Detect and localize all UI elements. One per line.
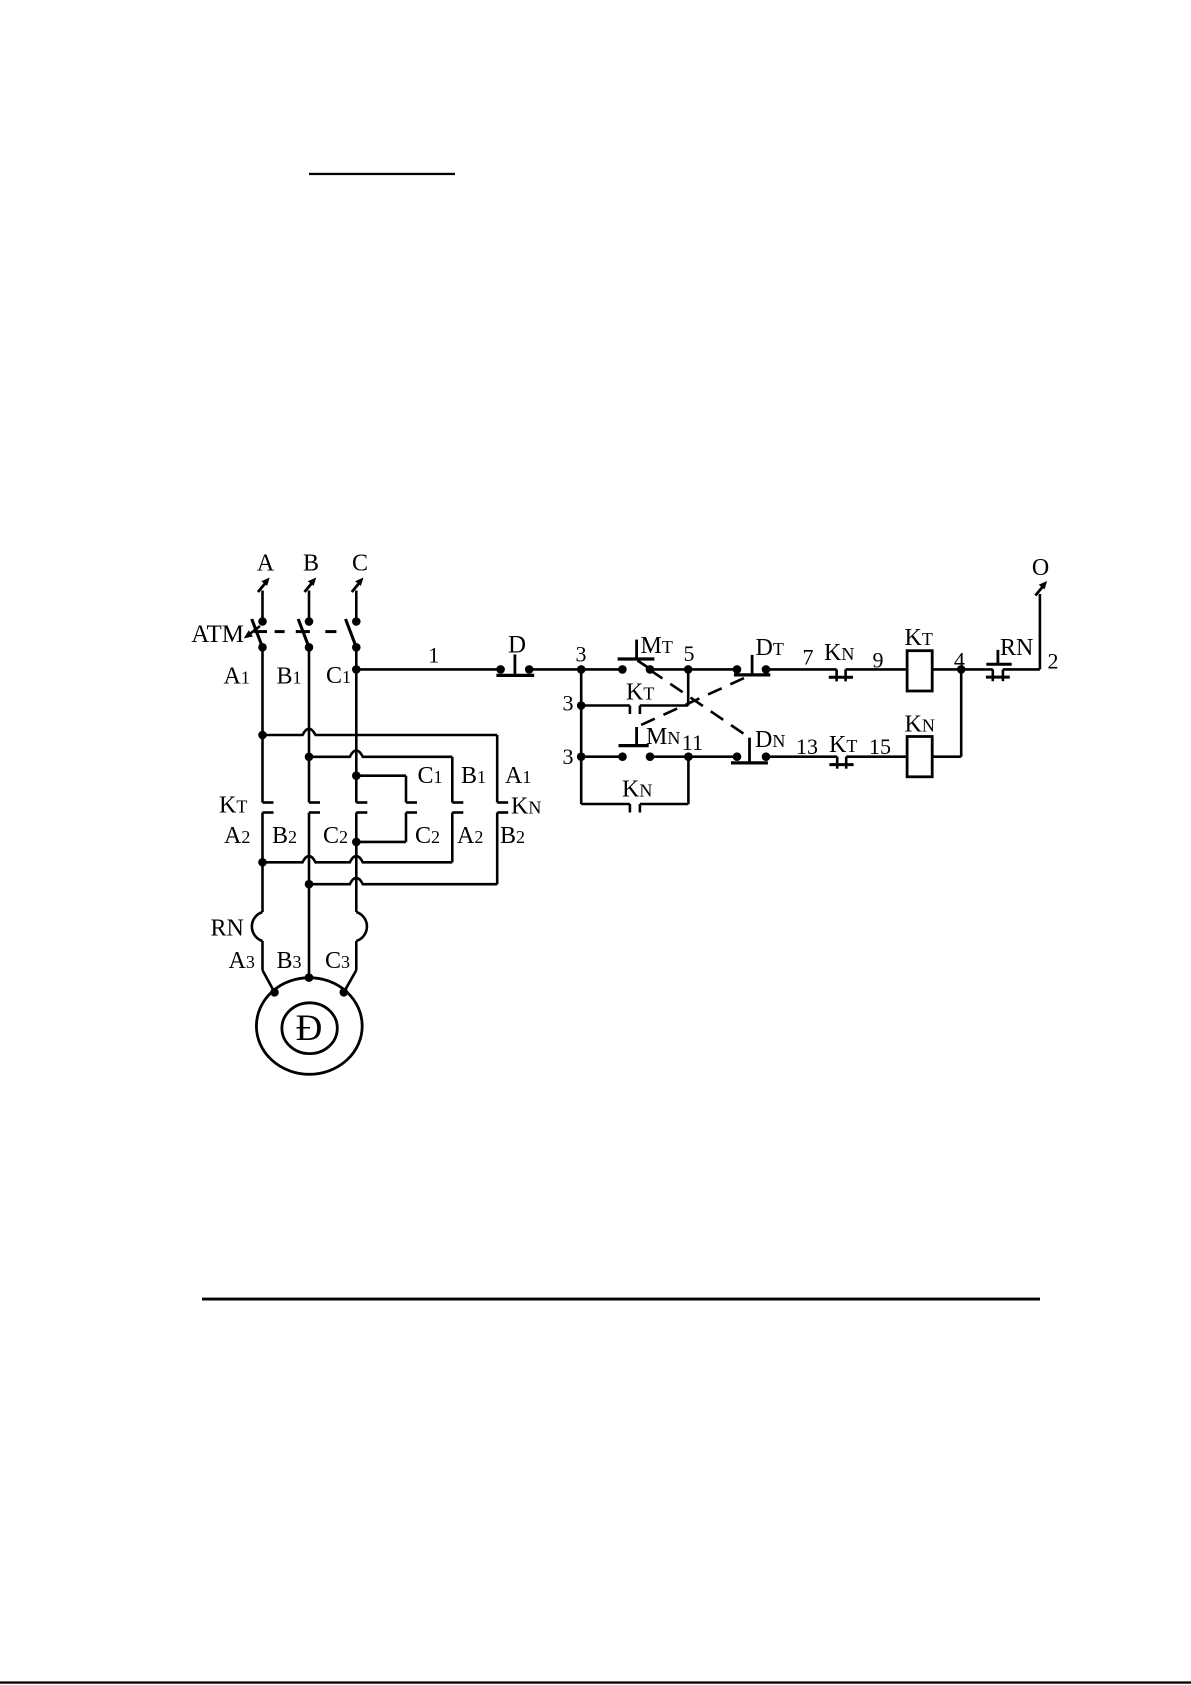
svg-text:O: O bbox=[1032, 555, 1049, 581]
svg-text:4: 4 bbox=[954, 648, 965, 673]
svg-text:KN: KN bbox=[511, 794, 541, 820]
svg-text:C: C bbox=[352, 551, 368, 577]
svg-text:15: 15 bbox=[869, 734, 891, 759]
svg-text:2: 2 bbox=[1048, 649, 1059, 674]
svg-text:9: 9 bbox=[873, 648, 884, 673]
svg-text:A3: A3 bbox=[229, 948, 255, 974]
svg-text:B3: B3 bbox=[277, 948, 302, 974]
svg-text:A2: A2 bbox=[224, 823, 250, 849]
svg-text:C3: C3 bbox=[325, 948, 350, 974]
svg-text:C1: C1 bbox=[326, 663, 351, 689]
svg-text:DN: DN bbox=[755, 727, 785, 753]
svg-text:A: A bbox=[257, 551, 275, 577]
svg-text:D: D bbox=[508, 632, 526, 659]
svg-text:B: B bbox=[303, 551, 319, 577]
svg-text:RN: RN bbox=[1000, 635, 1033, 661]
svg-text:KT: KT bbox=[905, 625, 933, 651]
svg-text:3: 3 bbox=[563, 691, 574, 716]
svg-text:DT: DT bbox=[756, 635, 784, 661]
svg-text:A1: A1 bbox=[505, 763, 531, 789]
svg-text:B2: B2 bbox=[500, 823, 525, 849]
svg-text:KN: KN bbox=[905, 712, 935, 738]
svg-text:5: 5 bbox=[684, 641, 695, 666]
svg-text:A1: A1 bbox=[224, 664, 250, 690]
svg-text:3: 3 bbox=[576, 642, 587, 667]
svg-text:KT: KT bbox=[219, 793, 247, 819]
svg-text:3: 3 bbox=[563, 744, 574, 769]
svg-text:C2: C2 bbox=[415, 823, 440, 849]
svg-text:KT: KT bbox=[626, 680, 654, 706]
svg-text:MT: MT bbox=[641, 633, 673, 659]
svg-text:ATM: ATM bbox=[191, 621, 244, 648]
svg-text:B1: B1 bbox=[277, 664, 302, 690]
svg-text:B2: B2 bbox=[272, 823, 297, 849]
svg-text:13: 13 bbox=[796, 734, 818, 759]
svg-text:KN: KN bbox=[622, 777, 652, 803]
svg-text:Đ: Đ bbox=[296, 1008, 323, 1049]
svg-text:1: 1 bbox=[428, 643, 439, 668]
svg-text:RN: RN bbox=[211, 916, 244, 942]
svg-text:KN: KN bbox=[824, 640, 854, 666]
svg-text:A2: A2 bbox=[457, 823, 483, 849]
svg-text:11: 11 bbox=[682, 730, 703, 755]
svg-text:B1: B1 bbox=[461, 763, 486, 789]
svg-text:7: 7 bbox=[803, 645, 814, 670]
svg-text:MN: MN bbox=[646, 724, 680, 750]
svg-text:KT: KT bbox=[829, 732, 857, 758]
svg-text:C2: C2 bbox=[323, 823, 348, 849]
svg-text:C1: C1 bbox=[418, 763, 443, 789]
